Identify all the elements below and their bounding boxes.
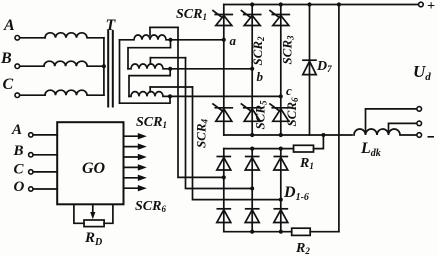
wire R1 to negative rail [314, 135, 324, 149]
resistor R2 [292, 228, 311, 235]
diode D3 [274, 157, 288, 171]
svg-text:GO: GO [82, 160, 106, 177]
thyristor SCR3 [270, 11, 289, 26]
wire tap of winding b [149, 58, 151, 64]
potentiometer RD body [84, 220, 104, 227]
wire diode bridge column 2 [251, 149, 253, 232]
junction top rail c [279, 2, 283, 6]
terminal A [15, 36, 20, 41]
primary winding C of transformer T [45, 90, 104, 95]
junction negative rail c [279, 133, 283, 137]
junction diode top rail 3 [279, 147, 283, 151]
wire tap b routing [150, 57, 185, 59]
wire phase c to node c [170, 95, 281, 97]
label T (transformer) [106, 17, 117, 34]
label SCR5 (vertical) [253, 100, 269, 130]
svg-text:A: A [11, 122, 22, 138]
wire zigzag return a to b [128, 40, 171, 69]
wire tap a drop to diode bridge [178, 27, 224, 177]
wire reactor tap 1 [366, 109, 418, 132]
junction phase b into diode bridge [250, 187, 254, 191]
potentiometer RD left lead [74, 204, 84, 223]
diode D7 [303, 60, 316, 74]
potentiometer RD right lead [104, 204, 113, 223]
gate pulse arrow 4 [124, 164, 147, 170]
label C (phase C input) [3, 76, 14, 93]
label SCR2 (vertical) [250, 36, 266, 66]
svg-text:b: b [257, 69, 264, 84]
wire B to primary winding [20, 65, 44, 67]
label R1 [299, 156, 314, 171]
label B (phase B input) [0, 50, 12, 67]
secondary winding a [120, 35, 171, 40]
thyristor SCR5 [241, 104, 260, 121]
diode D5 [245, 209, 259, 223]
secondary winding b [128, 64, 170, 69]
wire secondary left rail [119, 40, 121, 103]
junction top rail D7 [307, 2, 311, 6]
svg-text:B: B [13, 143, 24, 159]
wire R2 to right column [310, 231, 339, 233]
terminal GO A [29, 133, 58, 137]
terminal C [15, 93, 20, 98]
svg-text:SCR1: SCR1 [136, 115, 167, 130]
wire tap of winding a [149, 27, 151, 35]
wire tap c drop to diode bridge [193, 87, 281, 200]
junction winding b output [168, 67, 172, 71]
label A (phase A input) [3, 17, 15, 34]
label D1-6 [283, 184, 309, 203]
wire tap b drop to diode bridge [186, 58, 253, 189]
wire bridge column c [280, 5, 282, 136]
terminal output tap 1 [417, 107, 422, 112]
svg-text:O: O [14, 179, 25, 195]
wire bridge column b [251, 5, 253, 136]
label D7 [316, 59, 332, 74]
label B (GO input) [13, 143, 24, 159]
diode D7 column [309, 5, 311, 136]
node b [250, 67, 263, 84]
diode D4 [217, 209, 231, 223]
node c [279, 83, 292, 98]
junction winding c output [168, 94, 172, 98]
node a [222, 33, 237, 48]
gate pulse arrow 6 [124, 185, 147, 191]
junction top rail b [250, 2, 254, 6]
label SCR6 (vertical) [284, 97, 300, 127]
wire C to primary winding [20, 94, 45, 96]
wire primary star rail [103, 38, 105, 95]
junction winding a output [168, 38, 172, 42]
junction primary star point [102, 64, 106, 68]
wire phase b to node b [170, 68, 252, 70]
wire tap a routing top [150, 26, 178, 28]
svg-text:C: C [3, 76, 14, 93]
terminal GO O [29, 187, 58, 191]
junction top rail right column [337, 2, 341, 6]
label Ud [413, 62, 431, 83]
label SCR4 (vertical) [194, 118, 210, 148]
label SCR1 (gate pulse) [136, 115, 167, 130]
terminal output minus [417, 133, 422, 138]
svg-text:A: A [3, 17, 15, 34]
wire tap of winding c [149, 87, 151, 92]
secondary winding c [129, 92, 170, 97]
svg-text:+: + [427, 0, 435, 14]
svg-text:B: B [0, 50, 12, 67]
thyristor SCR1 [213, 11, 232, 26]
wire tap c routing [150, 86, 192, 88]
svg-text:SCR1: SCR1 [176, 7, 207, 22]
junction negative rail b [250, 133, 254, 137]
wire diode bridge column 1 [223, 149, 225, 232]
label RD [84, 230, 102, 248]
terminal output tap 2 [417, 121, 422, 126]
trigger unit GO box [57, 122, 123, 204]
wire positive top rail [224, 4, 420, 6]
wire diode bridge column 3 [280, 149, 282, 232]
wire reactor tap 2 [389, 123, 418, 131]
label SCR6 (gate pulse) [135, 199, 166, 214]
junction diode top rail 2 [250, 147, 254, 151]
terminal GO B [29, 153, 58, 157]
gate pulse arrow 2 [124, 143, 147, 149]
transformer core [108, 31, 113, 107]
label A (GO input) [11, 122, 22, 138]
wire bridge column a [223, 5, 225, 136]
gate pulse arrow 1 [124, 133, 147, 139]
junction phase c into diode bridge [279, 198, 283, 202]
diode D1 [217, 157, 231, 171]
wire zigzag return b to c [129, 69, 170, 97]
wire A to primary winding [20, 37, 45, 39]
primary winding A of transformer T [45, 33, 104, 38]
resistor R1 [294, 145, 314, 152]
svg-text:C: C [14, 162, 25, 178]
svg-text:c: c [286, 83, 292, 98]
thyristor SCR6 [270, 104, 289, 121]
label + [427, 0, 435, 14]
label O (GO input) [14, 179, 25, 195]
junction R1 on negative rail [321, 133, 325, 137]
wire phase a to node a [171, 39, 224, 41]
gate pulse arrow 5 [124, 175, 147, 181]
svg-text:T: T [106, 17, 117, 34]
wire right column (plus rail to R2) [338, 5, 340, 232]
thyristor SCR2 [241, 11, 260, 26]
thyristor SCR4 [213, 104, 232, 121]
wire diode bridge top rail [224, 148, 294, 150]
junction diode bottom rail 3 [279, 230, 283, 234]
potentiometer RD wiper arrow [90, 204, 95, 219]
junction diode bottom rail 2 [250, 230, 254, 234]
label Ldk [360, 140, 381, 159]
wire zigzag return c to rail [120, 96, 171, 103]
terminal B [15, 64, 20, 69]
diode D2 [245, 157, 259, 171]
junction phase a into diode bridge [222, 175, 226, 179]
inductor Ldk (tapped smoothing reactor) [354, 129, 417, 135]
wire diode bridge bottom rail [224, 231, 292, 233]
terminal plus output [419, 2, 424, 7]
terminal GO C [29, 170, 58, 174]
primary winding B of transformer T [44, 61, 104, 66]
label C (GO input) [14, 162, 25, 178]
label R2 [295, 241, 310, 256]
label SCR1 [176, 7, 207, 22]
label SCR3 (vertical) [280, 35, 296, 65]
label GO [82, 160, 106, 177]
label minus [428, 136, 435, 138]
svg-text:a: a [230, 33, 237, 48]
gate pulse arrow 3 [124, 154, 147, 160]
diode D6 [274, 209, 288, 223]
wire negative rail [224, 134, 352, 136]
